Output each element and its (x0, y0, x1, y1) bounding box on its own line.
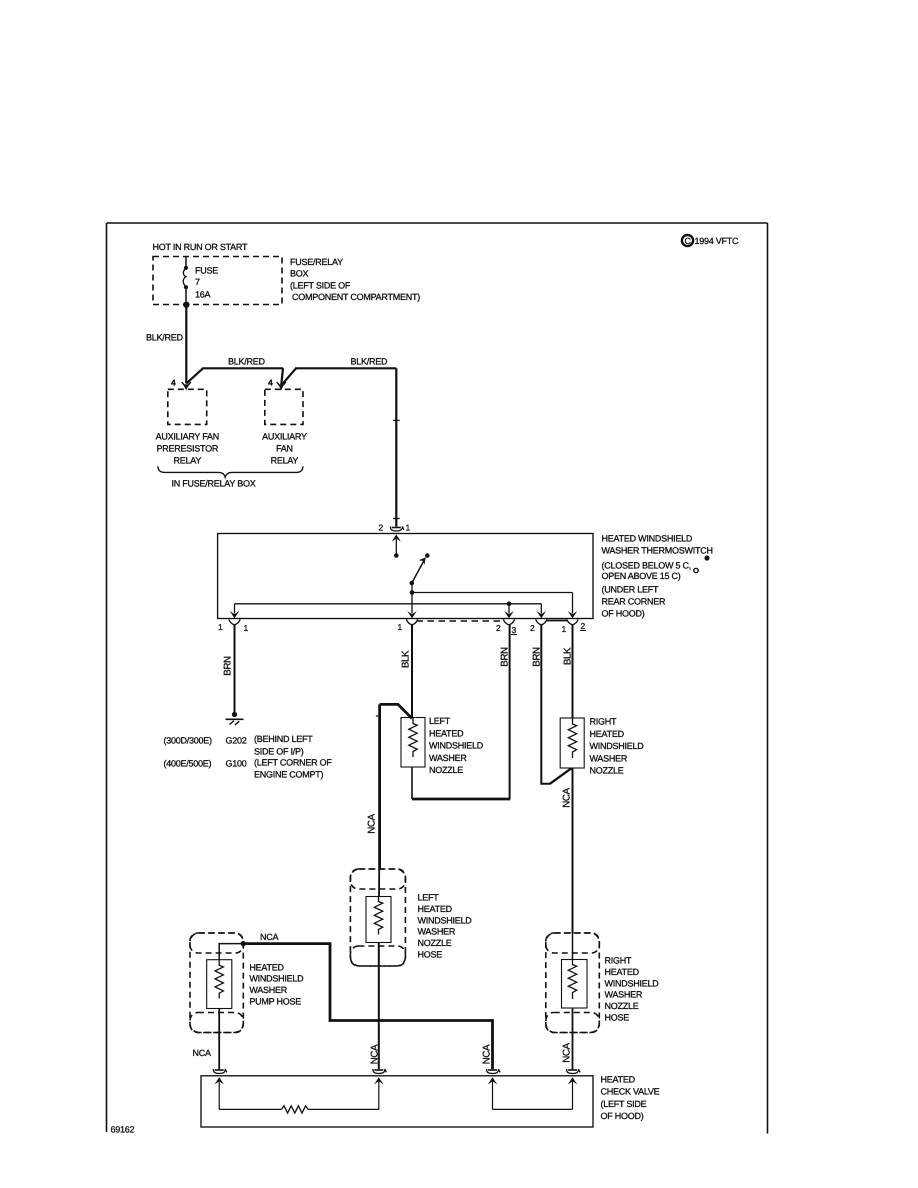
svg-text:PUMP HOSE: PUMP HOSE (249, 997, 301, 1007)
label (400E/500E) G100 (LEFT CORNER OF ENGINE COMPT) (164, 758, 333, 780)
svg-text:BLK/RED: BLK/RED (228, 357, 266, 367)
arrow up check valve 3 (488, 1077, 498, 1109)
left nozzle hose top cap (350, 869, 405, 889)
auxiliary fan preresistor relay box (168, 389, 207, 424)
label RIGHT HEATED WINDSHIELD WASHER NOZZLE (590, 717, 645, 776)
hose line to left nozzle top (380, 704, 412, 718)
svg-text:OF HOOD): OF HOOD) (601, 1111, 644, 1121)
wire left nozzle hose down (378, 943, 380, 1070)
solid connector bar (547, 620, 568, 622)
wire BLK to left nozzle (411, 625, 413, 718)
svg-text:(300D/300E): (300D/300E) (164, 736, 213, 746)
svg-text:1994 VFTC: 1994 VFTC (695, 236, 740, 246)
svg-text:CHECK VALVE: CHECK VALVE (601, 1087, 660, 1097)
label HEATED WINDSHIELD WASHER THERMOSWITCH (CLOSED BELOW 5 C, OPEN ABOVE 15 C) (UNDER LEFT REAR CORNER OF HOOD) (602, 534, 713, 619)
svg-text:WINDSHIELD: WINDSHIELD (605, 978, 660, 988)
svg-text:(UNDER LEFT: (UNDER LEFT (602, 585, 660, 595)
svg-text:NCA: NCA (562, 1042, 573, 1062)
left nozzle hose inner box (366, 897, 391, 943)
auxiliary fan relay box (265, 389, 303, 424)
svg-text:1: 1 (398, 622, 403, 632)
svg-text:2: 2 (379, 523, 384, 533)
svg-text:IN FUSE/RELAY BOX: IN FUSE/RELAY BOX (172, 479, 256, 489)
arrow up check valve 4 (568, 1077, 578, 1109)
svg-text:WASHER: WASHER (418, 927, 456, 937)
right nozzle hose bottom cap (546, 1013, 600, 1033)
heated check valve box (201, 1076, 593, 1127)
right nozzle hose inner box (562, 960, 588, 1009)
right heated windshield washer nozzle hose outer dashed box (546, 933, 600, 1033)
connector cup pin 2 right (562, 619, 587, 634)
arrow down pin 1 mid (407, 611, 417, 618)
internal drop to pin 1 left (234, 604, 236, 614)
check valve internal wire with resistor (219, 1106, 379, 1113)
right nozzle hose top cap (546, 933, 600, 953)
svg-text:HEATED: HEATED (418, 904, 453, 914)
svg-text:HEATED: HEATED (601, 1075, 636, 1085)
label AUXILIARY FAN RELAY (262, 432, 307, 466)
wire BRN pin2 down (541, 625, 550, 784)
connector pin 2/1 at thermoswitch top (379, 523, 411, 533)
switch blade S1 (410, 557, 426, 585)
label HEATED CHECK VALVE (LEFT SIDE OF HOOD) (601, 1075, 660, 1122)
wire diagonal from relay 2 pin (282, 368, 296, 384)
svg-text:REAR CORNER: REAR CORNER (602, 597, 667, 607)
wire BRN pin3 down (509, 625, 511, 799)
svg-text:2: 2 (496, 623, 501, 633)
label LEFT HEATED WINDSHIELD WASHER NOZZLE (429, 716, 484, 775)
svg-text:1: 1 (218, 622, 223, 632)
connector cup pin 1 mid (398, 619, 418, 632)
svg-text:C: C (685, 236, 692, 246)
svg-text:NCA: NCA (482, 1044, 493, 1064)
junction dot on fuse box edge (183, 302, 189, 308)
label RIGHT HEATED WINDSHIELD WASHER NOZZLE HOSE (605, 956, 660, 1023)
hose diagonal to right nozzle bottom (550, 768, 572, 784)
svg-text:HOSE: HOSE (418, 950, 443, 960)
svg-text:HEATED: HEATED (249, 962, 284, 972)
wire right nozzle hose down (572, 1008, 574, 1069)
svg-text:WINDSHIELD: WINDSHIELD (249, 974, 304, 984)
svg-text:BLK/RED: BLK/RED (146, 333, 184, 343)
svg-text:NOZZLE: NOZZLE (418, 938, 452, 948)
label (300D/300E) G202 (BEHIND LEFT SIDE OF I/P) (164, 734, 314, 757)
wire pump hose down (218, 1009, 220, 1070)
svg-text:1: 1 (244, 623, 249, 633)
svg-text:G202: G202 (226, 736, 247, 746)
pump hose resistor (215, 960, 223, 999)
svg-text:(CLOSED BELOW 5 C,: (CLOSED BELOW 5 C, (602, 561, 692, 571)
svg-text:RIGHT: RIGHT (605, 956, 633, 966)
svg-text:ENGINE COMPT): ENGINE COMPT) (254, 770, 324, 780)
hose NCA vertical left nozzle (378, 704, 381, 869)
label AUXILIARY FAN PRERESISTOR RELAY (156, 432, 219, 466)
label HEATED WINDSHIELD WASHER PUMP HOSE (249, 962, 304, 1006)
svg-text:WASHER: WASHER (429, 753, 467, 763)
arrow down pin 2 right (568, 611, 578, 618)
right heated windshield washer nozzle box (560, 718, 584, 768)
left nozzle hose resistor (374, 897, 382, 935)
hose NCA vertical right nozzle (572, 768, 574, 934)
arrow up check valve 2 (374, 1077, 384, 1109)
speck dots near text (694, 555, 710, 572)
internal drop to pin 3 (508, 604, 510, 614)
svg-text:NOZZLE: NOZZLE (590, 766, 624, 776)
dashed connector bar (417, 620, 503, 622)
brace under relays (158, 466, 303, 477)
svg-text:NCA: NCA (193, 1048, 211, 1058)
svg-text:NOZZLE: NOZZLE (605, 1001, 639, 1011)
svg-text:OF HOOD): OF HOOD) (602, 609, 645, 619)
svg-text:BRN: BRN (223, 656, 234, 676)
fuse/relay box (dashed) (153, 257, 282, 305)
svg-text:RELAY: RELAY (173, 456, 201, 466)
svg-text:WINDSHIELD: WINDSHIELD (590, 741, 645, 751)
svg-text:HEATED: HEATED (590, 729, 625, 739)
check valve internal wire right (493, 1108, 573, 1110)
wire horizontal bus segment 1 (202, 367, 283, 369)
wire diagonal to relay bus (186, 368, 203, 383)
svg-text:WASHER: WASHER (590, 753, 628, 763)
svg-text:BLK/RED: BLK/RED (351, 357, 389, 367)
svg-text:NCA: NCA (562, 787, 573, 807)
junction dot on line 1 (410, 590, 415, 595)
connector cup pin 2 mid (530, 619, 547, 633)
pump hose top cap (190, 933, 243, 953)
pump hose inner box (207, 960, 232, 1009)
switch arrow up inside box (392, 535, 401, 558)
svg-text:AUXILIARY: AUXILIARY (262, 432, 307, 442)
connector cup pin 1 left (218, 619, 249, 633)
svg-text:NCA: NCA (369, 1044, 380, 1064)
heated windshield washer thermoswitch box (218, 534, 593, 619)
internal wire line 2 (235, 603, 542, 605)
arrow down pin 2 mid (537, 611, 547, 618)
svg-text:HEATED WINDSHIELD: HEATED WINDSHIELD (602, 534, 693, 544)
copyright logo 1994 VFTC (682, 235, 739, 246)
svg-text:WASHER: WASHER (249, 985, 287, 995)
arrow down pin 3 (504, 611, 514, 618)
svg-text:WINDSHIELD: WINDSHIELD (418, 915, 473, 925)
svg-text:4: 4 (171, 378, 176, 388)
hose return left nozzle (412, 798, 510, 801)
splice tick on wire (393, 518, 400, 520)
svg-text:1: 1 (406, 523, 411, 533)
wire drop to relay 2 pin (281, 368, 283, 384)
right nozzle hose resistor (568, 960, 576, 1000)
svg-text:LEFT: LEFT (429, 716, 451, 726)
svg-text:(400E/500E): (400E/500E) (164, 759, 212, 769)
svg-text:7: 7 (195, 277, 200, 287)
svg-text:PRERESISTOR: PRERESISTOR (156, 444, 218, 454)
left nozzle hose bottom cap (350, 946, 405, 966)
wire BRN to ground (234, 625, 236, 713)
wire BLK/RED down to thermoswitch (395, 368, 397, 526)
svg-text:(BEHIND LEFT: (BEHIND LEFT (254, 734, 313, 744)
connector cup pin 3 (496, 619, 517, 635)
svg-text:(LEFT CORNER OF: (LEFT CORNER OF (254, 758, 332, 768)
svg-text:(LEFT SIDE OF: (LEFT SIDE OF (290, 281, 351, 291)
svg-text:3: 3 (512, 625, 517, 635)
left heated windshield washer nozzle hose outer dashed box (350, 869, 405, 966)
svg-text:4: 4 (268, 378, 273, 388)
internal drop to pin 2 mid (540, 604, 542, 614)
svg-text:SIDE OF I/P): SIDE OF I/P) (254, 747, 304, 757)
svg-text:FAN: FAN (276, 444, 293, 454)
svg-text:16A: 16A (195, 290, 211, 300)
switch contact dot (425, 553, 430, 558)
junction dot NCA (241, 941, 246, 946)
svg-text:RIGHT: RIGHT (590, 717, 618, 727)
svg-text:RELAY: RELAY (271, 456, 299, 466)
svg-text:LEFT: LEFT (418, 893, 440, 903)
svg-text:FUSE: FUSE (195, 266, 218, 276)
svg-text:OPEN ABOVE 15 C): OPEN ABOVE 15 C) (602, 571, 681, 581)
wire from switch pivot down (411, 583, 413, 614)
svg-text:69162: 69162 (111, 1125, 135, 1135)
splice tick on hose (376, 715, 380, 717)
wire through left nozzle hose (378, 869, 380, 897)
svg-text:2: 2 (581, 621, 586, 631)
fuse F7 symbol (183, 257, 188, 302)
svg-text:WASHER: WASHER (605, 990, 643, 1000)
wire BLK/RED from fuse down (185, 305, 187, 384)
border frame (107, 223, 768, 1134)
ground symbol G202/G100 (226, 712, 244, 725)
svg-text:FUSE/RELAY: FUSE/RELAY (290, 257, 343, 267)
svg-text:NCA: NCA (367, 813, 378, 833)
svg-text:HEATED: HEATED (429, 728, 464, 738)
svg-text:HEATED: HEATED (605, 967, 640, 977)
left nozzle resistor (409, 718, 417, 758)
internal drop to pin 2 right (572, 593, 574, 614)
wire left nozzle bottom (411, 767, 413, 799)
svg-text:HOT IN RUN OR START: HOT IN RUN OR START (153, 242, 249, 252)
internal wire line 1 (412, 592, 573, 594)
connector cup check valve 3 (487, 1069, 500, 1074)
svg-text:WASHER THERMOSWITCH: WASHER THERMOSWITCH (602, 546, 713, 556)
arrow up check valve 1 (214, 1077, 224, 1109)
svg-text:BOX: BOX (290, 269, 309, 279)
svg-text:1: 1 (562, 624, 567, 634)
svg-text:(LEFT SIDE: (LEFT SIDE (601, 1099, 647, 1109)
svg-text:AUXILIARY FAN: AUXILIARY FAN (156, 432, 219, 442)
arrow down pin 1 left (230, 611, 240, 618)
wire inside pump hose (219, 944, 243, 960)
pump hose bottom cap (190, 1013, 243, 1033)
pin 4 arrow relay 1 (171, 378, 191, 390)
left heated windshield washer nozzle box (401, 718, 425, 768)
wire BLK to right nozzle (572, 625, 574, 718)
right nozzle resistor (568, 718, 576, 758)
svg-text:BLK: BLK (401, 650, 412, 668)
svg-text:2: 2 (530, 623, 535, 633)
splice tick on wire (393, 419, 400, 421)
heated windshield washer pump hose outer dashed box (190, 933, 243, 1033)
connector cup check valve 4 (567, 1069, 580, 1074)
junction dot on line 2 (507, 602, 512, 607)
svg-text:HOSE: HOSE (605, 1013, 630, 1023)
wire horizontal bus segment 2 (295, 367, 396, 369)
svg-text:NOZZLE: NOZZLE (429, 765, 463, 775)
label LEFT HEATED WINDSHIELD WASHER NOZZLE HOSE (418, 893, 473, 960)
svg-text:G100: G100 (226, 759, 247, 769)
label FUSE 7 16A (195, 266, 218, 300)
svg-text:WINDSHIELD: WINDSHIELD (429, 741, 484, 751)
svg-text:NCA: NCA (260, 932, 278, 942)
connector cup check valve 1 (213, 1069, 226, 1074)
svg-text:COMPONENT COMPARTMENT): COMPONENT COMPARTMENT) (292, 292, 420, 302)
hose NCA horizontal from pump (243, 944, 492, 1070)
label FUSE/RELAY BOX (LEFT SIDE OF COMPONENT COMPARTMENT) (290, 257, 420, 302)
pin 4 arrow relay 2 (268, 378, 286, 390)
connector cup check valve 2 (373, 1069, 386, 1074)
